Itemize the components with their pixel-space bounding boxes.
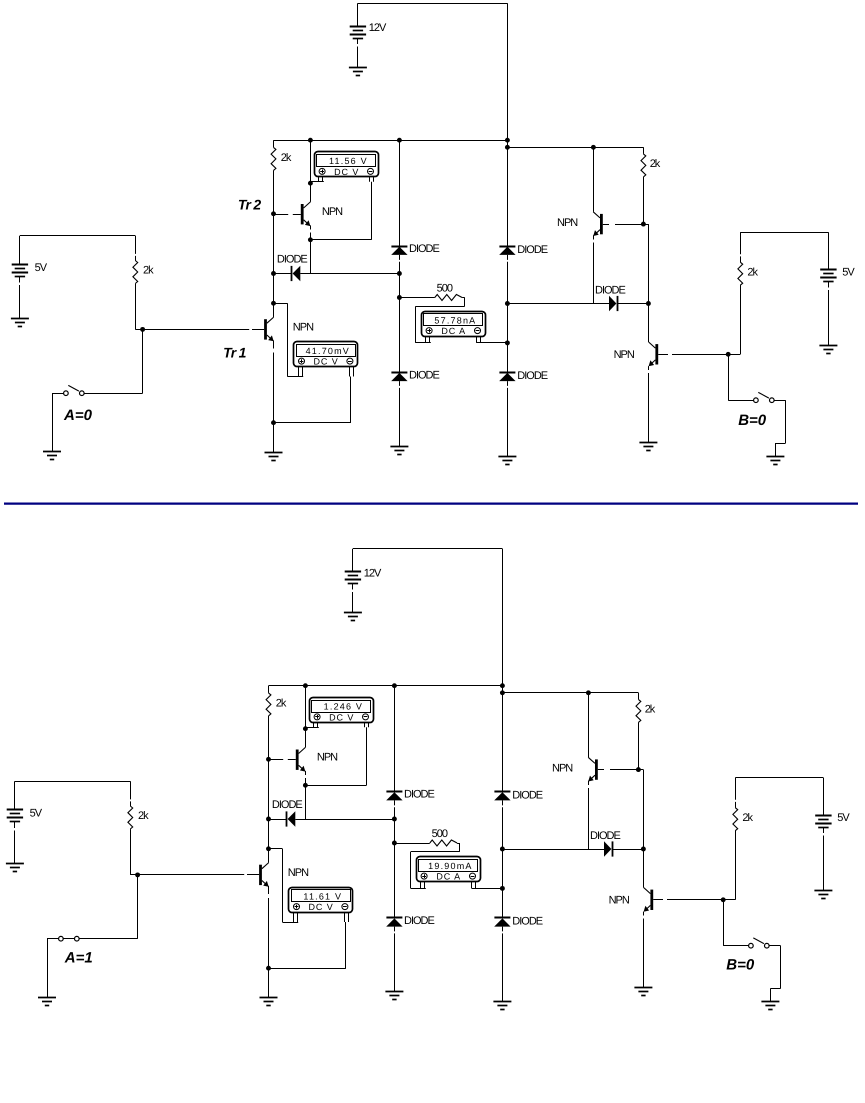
svg-text:NPN: NPN	[609, 894, 630, 906]
svg-text:DIODE: DIODE	[595, 284, 626, 296]
svg-text:2k: 2k	[143, 265, 154, 277]
svg-text:DIODE: DIODE	[272, 799, 303, 811]
svg-text:DIODE: DIODE	[409, 369, 440, 381]
svg-text:1.246 V: 1.246 V	[324, 702, 363, 712]
svg-text:DC A: DC A	[441, 326, 466, 336]
svg-text:DIODE: DIODE	[277, 253, 308, 265]
svg-text:DC A: DC A	[436, 872, 461, 882]
svg-text:DIODE: DIODE	[517, 244, 548, 256]
svg-text:NPN: NPN	[614, 349, 635, 361]
svg-text:2k: 2k	[747, 266, 758, 278]
svg-text:DIODE: DIODE	[404, 915, 435, 927]
svg-text:DC V: DC V	[334, 167, 359, 177]
svg-text:DIODE: DIODE	[512, 790, 543, 802]
svg-text:5V: 5V	[837, 812, 850, 824]
svg-text:2k: 2k	[138, 810, 149, 822]
svg-text:NPN: NPN	[317, 752, 338, 764]
svg-text:DC V: DC V	[329, 713, 354, 723]
svg-text:11.56 V: 11.56 V	[329, 156, 368, 166]
svg-text:5V: 5V	[35, 262, 48, 274]
svg-text:DIODE: DIODE	[590, 830, 621, 842]
svg-text:DIODE: DIODE	[409, 243, 440, 255]
svg-text:19.90mA: 19.90mA	[428, 861, 472, 871]
svg-text:A=1: A=1	[64, 950, 93, 967]
svg-text:12V: 12V	[369, 22, 387, 34]
svg-text:NPN: NPN	[557, 217, 578, 229]
svg-text:NPN: NPN	[552, 763, 573, 775]
svg-text:NPN: NPN	[288, 867, 309, 879]
svg-text:2k: 2k	[742, 812, 753, 824]
svg-text:Tr 1: Tr 1	[223, 344, 247, 360]
svg-text:NPN: NPN	[322, 206, 343, 218]
svg-text:DC V: DC V	[314, 357, 339, 367]
svg-text:12V: 12V	[364, 568, 382, 580]
svg-text:2k: 2k	[650, 158, 661, 170]
svg-text:B=0: B=0	[738, 412, 767, 429]
svg-text:500: 500	[437, 283, 453, 295]
svg-text:11.61 V: 11.61 V	[303, 891, 342, 901]
svg-text:2k: 2k	[645, 703, 656, 715]
svg-text:57.78nA: 57.78nA	[434, 315, 476, 325]
svg-text:DIODE: DIODE	[512, 916, 543, 928]
svg-text:2k: 2k	[276, 698, 287, 710]
svg-text:DC V: DC V	[309, 902, 334, 912]
svg-text:500: 500	[432, 828, 448, 840]
svg-text:DIODE: DIODE	[517, 370, 548, 382]
svg-text:DIODE: DIODE	[404, 789, 435, 801]
svg-text:2k: 2k	[281, 152, 292, 164]
svg-text:NPN: NPN	[293, 322, 314, 334]
svg-text:Tr 2: Tr 2	[238, 196, 262, 212]
svg-text:41.70mV: 41.70mV	[306, 346, 350, 356]
svg-text:5V: 5V	[842, 267, 855, 279]
svg-text:A=0: A=0	[63, 407, 93, 424]
svg-text:B=0: B=0	[726, 956, 755, 973]
svg-text:5V: 5V	[30, 807, 43, 819]
